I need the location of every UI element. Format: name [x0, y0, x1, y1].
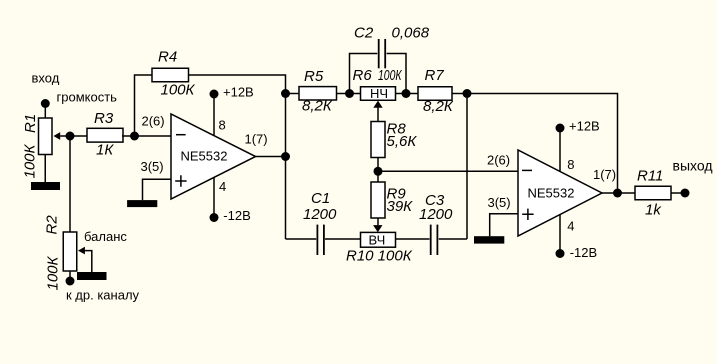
- wire R5 to НЧ pot: [337, 93, 361, 95]
- node вход (input terminal): [32, 71, 60, 119]
- svg-text:100К: 100К: [378, 67, 402, 84]
- svg-text:NE5532: NE5532: [181, 149, 228, 164]
- wire C1 to ВЧ pot: [325, 238, 361, 240]
- wire bus to R5: [286, 93, 300, 95]
- resistor R4 100К (feedback U1): [152, 49, 196, 99]
- wire junction to U2 inverting input: [378, 170, 518, 172]
- svg-text:8,2К: 8,2К: [423, 98, 454, 115]
- svg-text:R2: R2: [44, 215, 61, 235]
- resistor R8 5,6К: [371, 121, 417, 158]
- op-amp U1 NE5532: [141, 114, 268, 200]
- svg-text:R1: R1: [22, 114, 39, 133]
- svg-text:к др. каналу: к др. каналу: [66, 288, 140, 303]
- svg-text:100К: 100К: [45, 255, 62, 290]
- svg-text:C1: C1: [311, 190, 330, 207]
- wire НЧ pot to R7: [396, 93, 419, 95]
- svg-text:8: 8: [219, 118, 226, 133]
- potentiometer R2 100К (баланс): [44, 215, 128, 291]
- svg-text:1(7): 1(7): [593, 167, 616, 182]
- node junction R3/R4/U1 input: [130, 132, 139, 141]
- svg-text:8: 8: [567, 157, 574, 172]
- svg-text:R10 100К: R10 100К: [346, 248, 413, 265]
- svg-text:2(6): 2(6): [487, 153, 510, 168]
- wire R1 bottom to ground: [44, 155, 46, 183]
- op-amp U2 NE5532: [487, 150, 616, 236]
- wire U2 non-inverting input to ground: [490, 214, 518, 236]
- node -12В (U1 pin 4): [210, 208, 251, 223]
- wire R4 right to vertical bus: [189, 75, 286, 239]
- svg-text:100К: 100К: [161, 82, 196, 99]
- svg-text:1К: 1К: [96, 142, 114, 159]
- svg-text:4: 4: [567, 219, 574, 234]
- svg-text:0,068: 0,068: [392, 25, 430, 42]
- svg-text:1200: 1200: [303, 206, 337, 223]
- node +12В (U1 pin 8): [210, 85, 254, 100]
- potentiometer R6 100К (НЧ): [353, 67, 403, 122]
- capacitor C1 1200: [303, 190, 337, 255]
- svg-text:выход: выход: [673, 158, 713, 174]
- node junction R7/C3: [463, 89, 472, 98]
- node +12В (U2 pin 8): [556, 119, 600, 134]
- svg-text:R5: R5: [304, 68, 324, 85]
- svg-text:1k: 1k: [645, 202, 662, 219]
- svg-text:8,2К: 8,2К: [302, 98, 333, 115]
- wire junction up to R4: [135, 75, 153, 136]
- ground (R2 wiper): [77, 272, 107, 280]
- svg-text:R7: R7: [425, 67, 445, 84]
- svg-text:1(7): 1(7): [245, 132, 268, 147]
- wire R3 to op-amp U1 inverting input: [122, 135, 171, 137]
- svg-text:3(5): 3(5): [141, 159, 164, 174]
- potentiometer R10 100К (ВЧ): [346, 232, 413, 264]
- capacitor C2 0,068: [350, 25, 430, 94]
- svg-text:2(6): 2(6): [142, 114, 165, 129]
- ground (below R1): [31, 182, 60, 190]
- resistor R9 39К: [371, 182, 413, 232]
- wire junction down to R2: [69, 136, 71, 232]
- wire U1 non-inverting input to ground: [143, 179, 172, 200]
- svg-text:-12В: -12В: [223, 208, 250, 223]
- node junction R4/R5 bus: [281, 89, 290, 98]
- node junction C2 left: [345, 89, 354, 98]
- node U2 output junction: [613, 189, 622, 198]
- svg-text:4: 4: [219, 179, 226, 194]
- resistor R5 8,2К: [299, 68, 337, 115]
- wire U2 pin 8 to +12В: [559, 128, 561, 172]
- node junction R1 wiper / R3 / R2: [66, 132, 75, 141]
- wire U2 output: [602, 192, 635, 194]
- svg-text:вход: вход: [32, 71, 60, 86]
- node выход (output terminal): [673, 158, 713, 198]
- svg-text:ВЧ: ВЧ: [369, 232, 386, 247]
- wire C3 to R7 junction: [439, 238, 467, 240]
- node junction C2 right: [402, 89, 411, 98]
- svg-text:баланс: баланс: [84, 229, 127, 244]
- svg-text:C2: C2: [354, 25, 374, 42]
- wire junction to R3: [70, 135, 88, 137]
- wire junction down to C3: [466, 94, 468, 240]
- wire U1 pin 8 to +12В: [213, 94, 215, 136]
- wire R11 to output: [671, 192, 685, 194]
- ground (U1 pin 3(5)): [127, 200, 157, 207]
- resistor R3 1К: [87, 110, 123, 159]
- resistor R11 1k: [635, 168, 671, 219]
- svg-text:100К: 100К: [22, 143, 39, 178]
- svg-text:+12В: +12В: [569, 119, 600, 134]
- wire U2 pin 4 to -12В: [559, 215, 561, 254]
- svg-text:-12В: -12В: [570, 245, 597, 260]
- ground (U2 pin 3(5)): [474, 236, 504, 243]
- capacitor C3 1200: [419, 192, 453, 255]
- svg-text:НЧ: НЧ: [370, 86, 388, 101]
- wire bus to C1: [286, 238, 317, 240]
- wire U1 output: [256, 156, 286, 158]
- svg-text:5,6К: 5,6К: [387, 133, 418, 150]
- svg-text:R6: R6: [353, 67, 373, 84]
- svg-text:NE5532: NE5532: [528, 186, 575, 201]
- wire U1 pin 4 to -12В: [213, 177, 215, 217]
- svg-text:R3: R3: [94, 110, 114, 127]
- wire ВЧ pot to C3: [396, 238, 430, 240]
- resistor R7 8,2К: [418, 67, 454, 115]
- svg-text:3(5): 3(5): [488, 195, 511, 210]
- svg-text:1200: 1200: [419, 206, 453, 223]
- svg-text:R11: R11: [637, 168, 663, 185]
- node U1 output junction: [281, 152, 290, 161]
- svg-text:R4: R4: [158, 49, 177, 66]
- svg-text:39К: 39К: [387, 198, 414, 215]
- svg-text:громкость: громкость: [57, 90, 118, 105]
- wire R8 to R9: [377, 158, 379, 183]
- svg-text:+12В: +12В: [223, 85, 254, 100]
- node junction R8/R9/U2 input: [374, 167, 383, 176]
- potentiometer R1 100К (громкость): [22, 90, 118, 179]
- wire R7 right to feedback bus: [452, 94, 618, 194]
- node к др. каналу (R2 bottom terminal): [66, 271, 140, 303]
- node -12В (U2 pin 4): [556, 245, 598, 260]
